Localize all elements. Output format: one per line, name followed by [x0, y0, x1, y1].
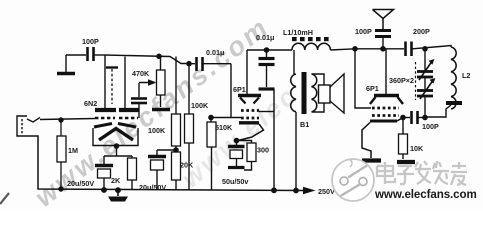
resistor R6 510K: [207, 115, 233, 190]
node varcap junction: [422, 46, 428, 52]
svg-text:100P: 100P: [82, 37, 99, 46]
svg-text:10K: 10K: [410, 144, 424, 153]
node coupling junction: [186, 61, 192, 67]
logo elecfans circle: [332, 159, 374, 201]
inductor L2: [413, 46, 471, 118]
capacitor C8 100P antenna: [355, 27, 391, 49]
svg-text:1M: 1M: [68, 146, 78, 155]
svg-text:100P: 100P: [355, 27, 372, 36]
resistor R4 20K: [172, 152, 194, 190]
node screen junction: [264, 47, 270, 53]
svg-text:100K: 100K: [191, 101, 209, 110]
transformer B1: [291, 50, 324, 191]
potentiometer RP 470K: [132, 56, 165, 107]
svg-text:360P×2: 360P×2: [389, 76, 414, 85]
power arrow 250V: [303, 187, 335, 196]
input jack J1: [17, 116, 40, 136]
tube U3 6P1 oscillator: [362, 49, 403, 158]
resistor R2 2K: [111, 156, 137, 190]
node rail-1M junction: [58, 186, 63, 191]
resistor R8 10K: [399, 118, 424, 160]
variable capacitor CV 360Px2: [389, 49, 435, 118]
node filter junction: [173, 147, 179, 153]
svg-text:470K: 470K: [132, 69, 150, 78]
svg-text:6P1: 6P1: [233, 85, 246, 94]
node plate junction: [156, 54, 162, 60]
wire plate rail: [105, 55, 189, 64]
svg-text:100K: 100K: [148, 126, 166, 135]
tube U2 6P1 output: [233, 50, 274, 143]
antenna: [373, 10, 394, 30]
wire input to grid: [40, 119, 95, 120]
svg-text:200P: 200P: [413, 27, 430, 36]
node rail cap junction: [101, 187, 107, 193]
wire grid oscillator: [355, 49, 371, 108]
node rail transformer junction: [293, 188, 299, 194]
resistor R7 300: [238, 141, 269, 171]
capacitor C2 20u/50V electrolytic: [67, 156, 113, 190]
speaker: [319, 74, 345, 113]
scan noise mark: [0, 193, 9, 204]
capacitor C5 0.01u: [189, 48, 231, 71]
svg-text:510K: 510K: [215, 123, 233, 132]
resistor R5 100K: [185, 64, 209, 190]
watermark diagonal text lower-left: [29, 11, 275, 212]
node antenna junction: [380, 46, 386, 52]
svg-text:50u/50v: 50u/50v: [222, 177, 248, 186]
wire rail to rf: [330, 49, 404, 50]
ground chassis below rail: [108, 190, 128, 202]
capacitor C3 coupling: [131, 83, 147, 118]
ground 10K: [397, 160, 415, 164]
svg-text:www.elecfans.com: www.elecfans.com: [374, 188, 477, 201]
wire jack to ground rail: [28, 136, 304, 191]
capacitor C6 50u/50v electrolytic: [222, 141, 248, 186]
svg-text:250V: 250V: [318, 187, 335, 196]
svg-text:L2: L2: [462, 71, 470, 80]
logo chinese text: [377, 161, 467, 185]
node input junction: [58, 117, 63, 122]
ground top-left: [57, 55, 75, 74]
svg-text:2K: 2K: [111, 176, 121, 185]
svg-text:6P1: 6P1: [366, 84, 379, 93]
svg-text:L1/10mH: L1/10mH: [283, 28, 313, 37]
node rail screen return: [271, 187, 277, 193]
svg-text:20K: 20K: [180, 161, 194, 170]
ground cathode: [362, 158, 381, 162]
resistor R3 100K: [148, 57, 181, 151]
ground pot bottom: [152, 108, 170, 112]
capacitor C10 200P: [406, 27, 430, 56]
node cathode rf: [400, 115, 406, 121]
tube U1 6N2 twin triode: [84, 55, 139, 146]
svg-text:100P: 100P: [422, 122, 439, 131]
node rail ground junction: [115, 187, 121, 193]
svg-text:20u/50V: 20u/50V: [139, 183, 166, 192]
capacitor C7 0.01u screen bypass: [256, 33, 275, 89]
svg-text:B1: B1: [300, 120, 309, 129]
watermark diagonal text upper-middle: [176, 80, 304, 194]
wire screen return: [273, 89, 275, 190]
node rf rail left: [352, 46, 358, 52]
capacitor C9 100P output: [403, 111, 439, 131]
svg-text:6N2: 6N2: [84, 99, 97, 108]
svg-text:0.01μ: 0.01μ: [256, 33, 274, 42]
wire plate to rail: [247, 49, 292, 51]
resistor R1 1M: [57, 120, 66, 189]
svg-text:300: 300: [257, 146, 269, 155]
wire cathode branch: [104, 146, 132, 156]
svg-text:0.01μ: 0.01μ: [206, 48, 224, 57]
svg-text:20u/50V: 20u/50V: [67, 179, 94, 188]
capacitor C1 100P: [66, 37, 105, 61]
capacitor C4 20u/50V electrolytic: [139, 150, 176, 192]
node tank bottom: [422, 115, 428, 121]
node cathode junction: [114, 143, 120, 149]
inductor L1 10mH: [283, 28, 330, 50]
wire grid hub: [211, 64, 241, 118]
